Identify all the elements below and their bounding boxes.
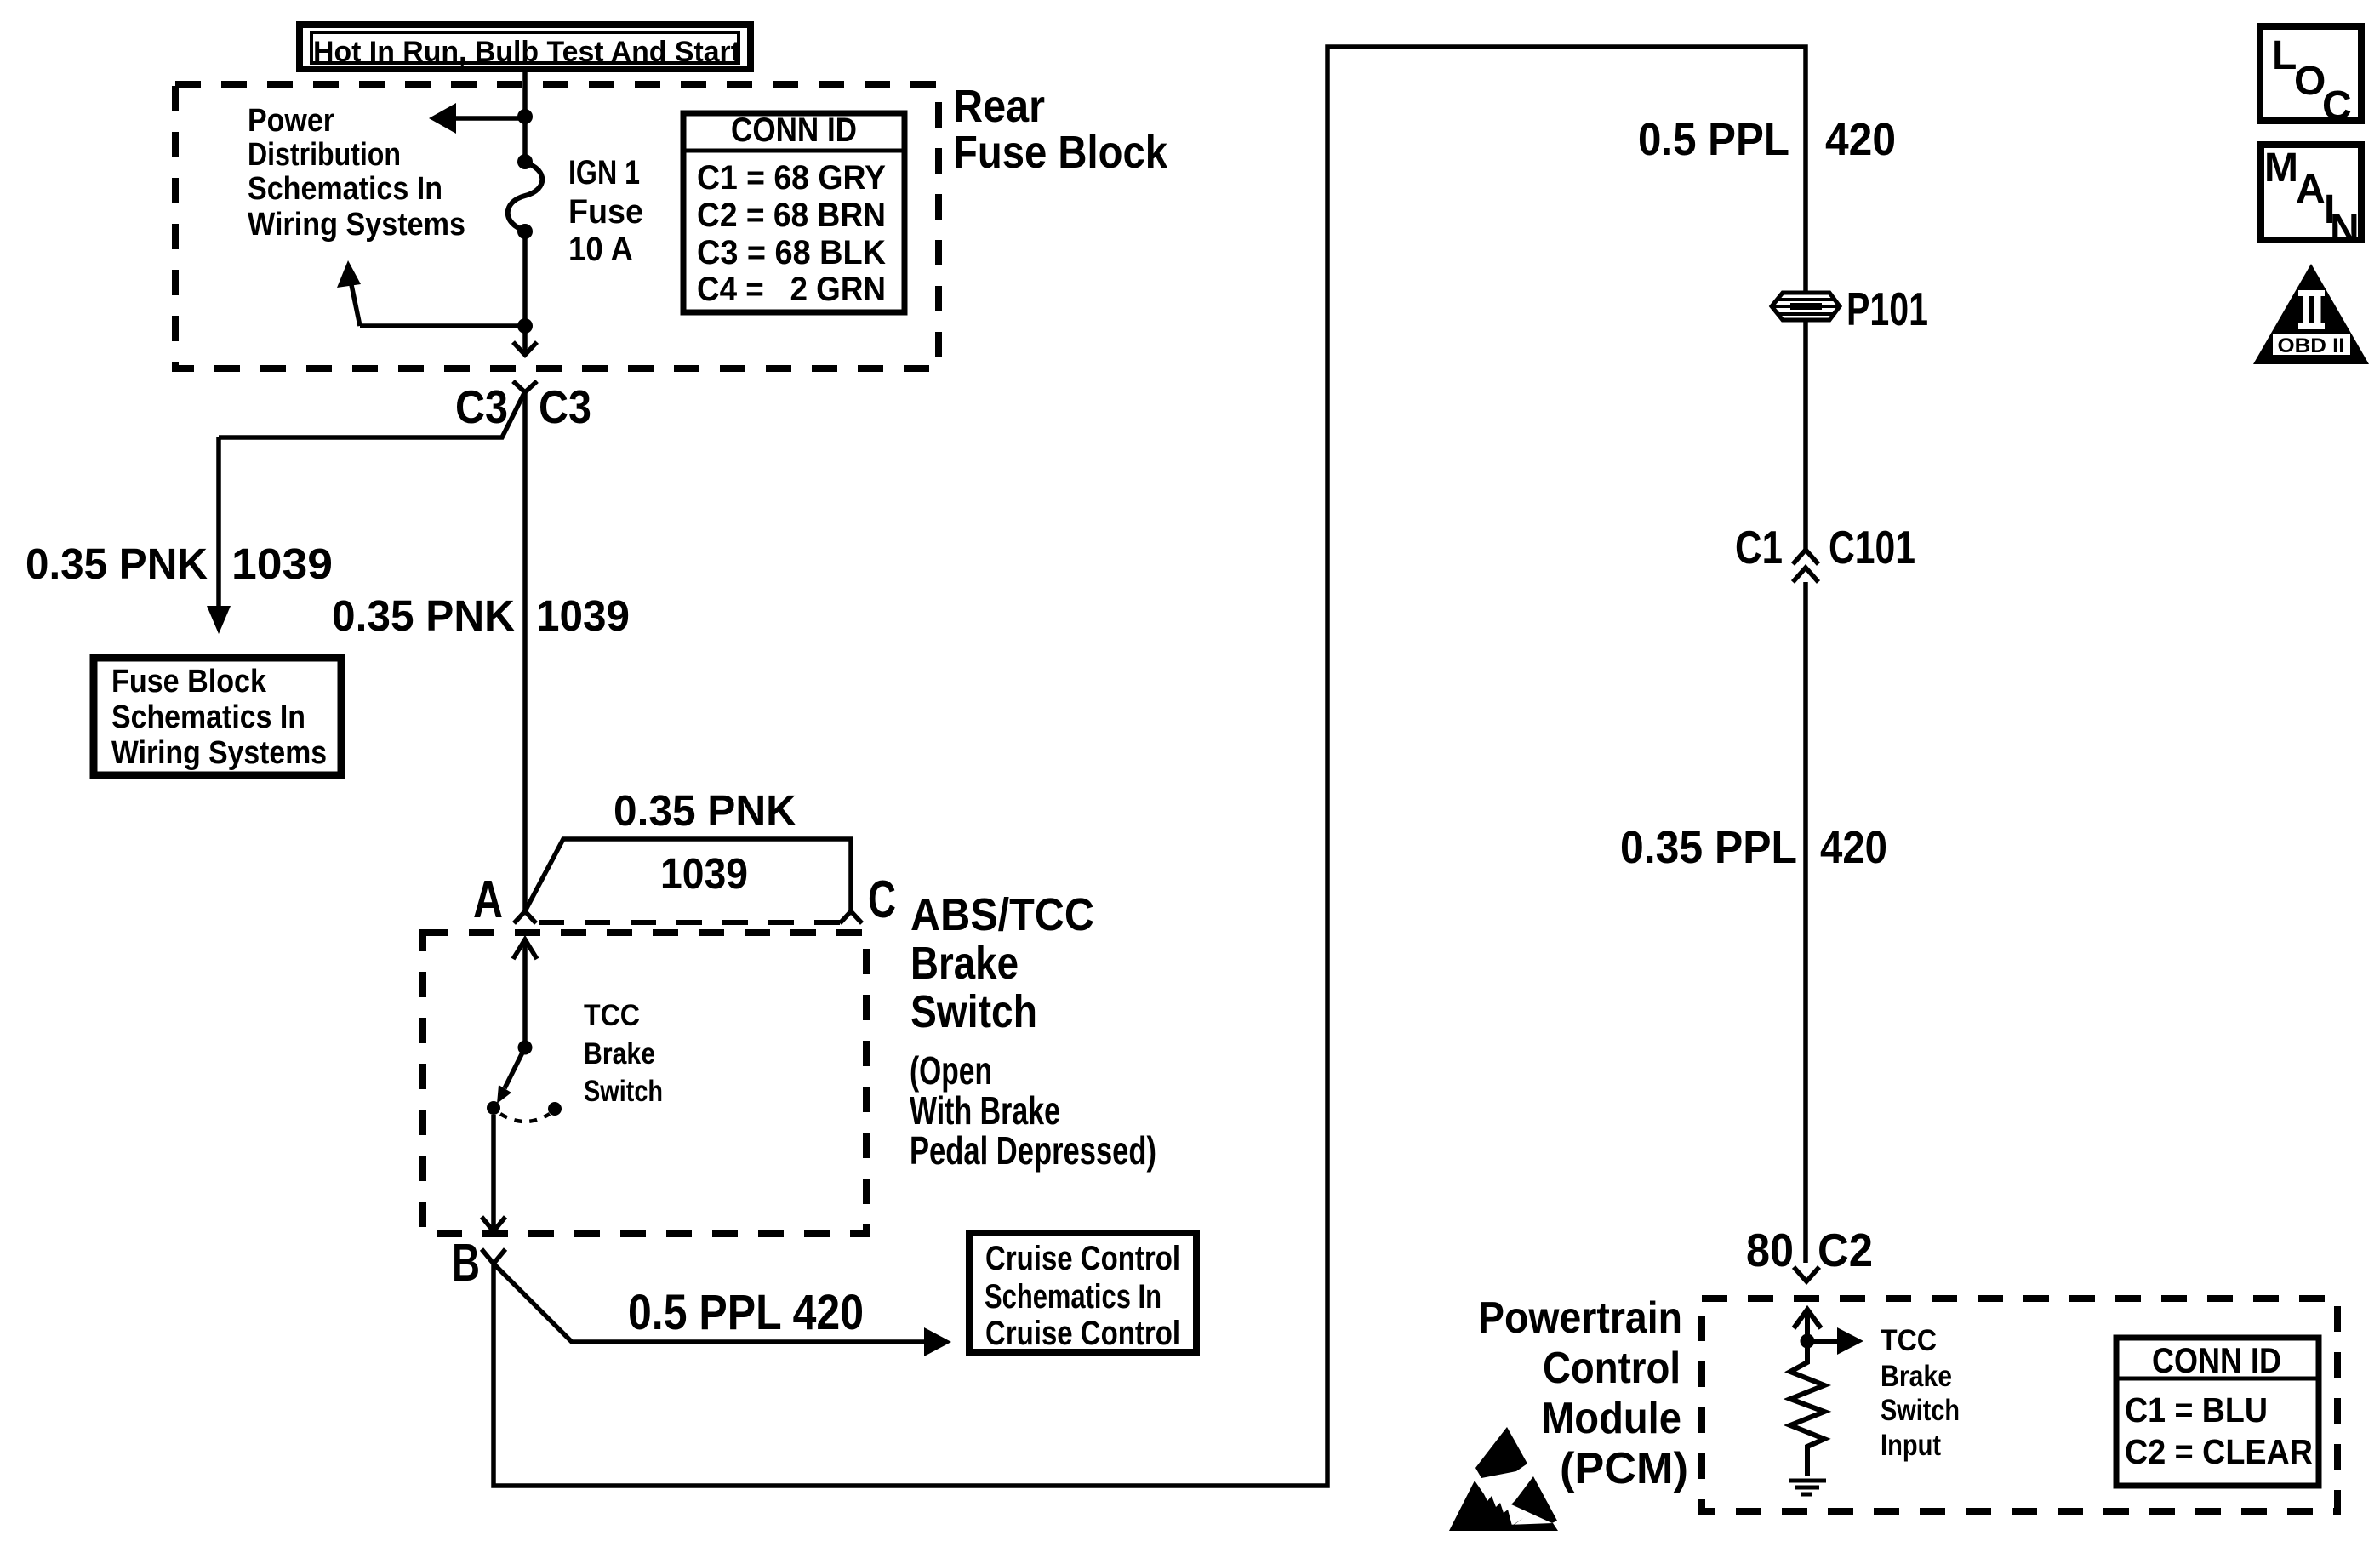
svg-text:Rear: Rear (953, 81, 1045, 132)
svg-text:Cruise Control: Cruise Control (985, 1315, 1180, 1352)
svg-text:P101: P101 (1846, 283, 1928, 335)
svg-text:Fuse: Fuse (568, 193, 643, 231)
fuse IGN 1 (S-curve element) (508, 154, 543, 239)
wire exit arrow at bottom of fuse block (513, 326, 537, 355)
label 0.35 PNK 1039 (main wire) (332, 591, 630, 640)
svg-text:420: 420 (1820, 822, 1887, 873)
wire branch from C3 to left arrow (207, 393, 524, 634)
svg-text:Hot In Run, Bulb Test And Star: Hot In Run, Bulb Test And Start (313, 36, 740, 68)
PCM input chevron arrow (1794, 1310, 1821, 1341)
wire dot to fuse (522, 117, 528, 162)
svg-text:IGN 1: IGN 1 (568, 154, 640, 191)
label 0.35 PNK 1039 (left branch) (26, 539, 333, 588)
wire entering switch with up arrow (513, 939, 537, 1042)
connector C3/C3 (fuse block to harness) (513, 381, 537, 392)
svg-text:Pedal Depressed): Pedal Depressed) (910, 1128, 1156, 1173)
wire bypass loop A to C (526, 839, 851, 910)
svg-text:With Brake: With Brake (910, 1088, 1060, 1133)
wire arrow to power distribution (left) (429, 103, 525, 134)
svg-text:C3: C3 (539, 380, 591, 433)
svg-text:(PCM): (PCM) (1560, 1444, 1688, 1493)
svg-text:C101: C101 (1829, 521, 1915, 574)
svg-text:C1: C1 (1735, 521, 1783, 574)
wire from Hot box into fuse block (522, 70, 528, 117)
svg-text:CONN ID: CONN ID (2152, 1340, 2281, 1380)
svg-text:C4 = 2 GRN: C4 = 2 GRN (697, 271, 886, 308)
wire arrow to TCC input (1807, 1327, 1863, 1355)
svg-text:Distribution: Distribution (248, 137, 401, 173)
svg-text:C2 = CLEAR: C2 = CLEAR (2125, 1432, 2313, 1471)
svg-text:A: A (473, 870, 503, 929)
svg-text:TCC: TCC (1881, 1324, 1937, 1357)
svg-text:Switch: Switch (584, 1075, 663, 1108)
svg-text:Module: Module (1541, 1394, 1681, 1443)
svg-text:Wiring Systems: Wiring Systems (248, 207, 465, 243)
connector pin B (482, 1249, 505, 1264)
wire fuse to lower junction (522, 231, 528, 326)
label TCC Brake Switch Input (1881, 1324, 1960, 1462)
connector pin A (514, 911, 536, 923)
svg-text:ABS/TCC: ABS/TCC (910, 889, 1094, 940)
label 0.35 PPL 420 (1620, 822, 1887, 873)
svg-text:0.35 PNK: 0.35 PNK (26, 539, 208, 588)
Powertrain Control Module dashed box (1702, 1299, 2337, 1511)
svg-text:B: B (452, 1234, 480, 1293)
label IGN 1 Fuse 10 A (568, 154, 643, 268)
label (Open With Brake Pedal Depressed) (910, 1048, 1156, 1173)
svg-text:Control: Control (1543, 1344, 1681, 1393)
connector P101 grommet (1772, 293, 1840, 320)
svg-text:0.5 PPL: 0.5 PPL (1638, 114, 1789, 165)
ESD warning symbol (1449, 1427, 1558, 1531)
svg-text:Schematics In: Schematics In (248, 171, 442, 207)
svg-text:0.35 PNK: 0.35 PNK (332, 591, 515, 640)
svg-text:TCC: TCC (584, 999, 640, 1032)
wire B to cruise control arrow (494, 1264, 951, 1356)
node junction dot below fuse (517, 318, 533, 334)
svg-text:(Open: (Open (910, 1048, 992, 1093)
label Rear Fuse Block (953, 81, 1168, 178)
switch TCC brake switch (blade and contacts) (487, 1041, 562, 1122)
resistor (PCM pull-up) (1790, 1348, 1824, 1476)
wire C101 to PCM (1803, 582, 1808, 1263)
svg-text:L: L (2272, 33, 2297, 78)
svg-text:C3 = 68 BLK: C3 = 68 BLK (697, 234, 886, 271)
label ABS/TCC Brake Switch (910, 889, 1094, 1037)
connector pin 80/C2 (1794, 1267, 1819, 1281)
connector C1/C101 (double chevron) (1793, 550, 1818, 582)
ground (PCM internal) (1789, 1481, 1826, 1494)
MAIN reference box (2261, 145, 2361, 252)
svg-text:OBD II: OBD II (2278, 334, 2345, 357)
label Power Distribution Schematics In Wiring Systems (248, 103, 465, 243)
svg-text:A: A (2296, 167, 2326, 212)
ABS/TCC Brake Switch dashed box (423, 933, 866, 1234)
svg-text:C: C (2322, 83, 2352, 128)
LOC reference box (2260, 26, 2361, 128)
node junction dot at fuse feed (517, 109, 533, 124)
Rear Fuse Block dashed box (175, 84, 939, 368)
connector pin C (840, 911, 862, 923)
wire branch to fuse block schematics arrow (337, 260, 525, 326)
Fuse Block Schematics box (94, 658, 341, 775)
wire P101 to C101 (1803, 320, 1808, 550)
label Powertrain Control Module (PCM) (1478, 1293, 1688, 1493)
svg-text:Power: Power (248, 103, 334, 139)
svg-text:Fuse Block: Fuse Block (111, 664, 267, 699)
svg-text:N: N (2330, 207, 2360, 252)
CONN ID table (PCM) (2116, 1338, 2319, 1486)
CONN ID table (rear fuse block) (683, 111, 905, 312)
svg-text:Brake: Brake (910, 938, 1019, 989)
svg-text:Powertrain: Powertrain (1478, 1293, 1682, 1343)
Cruise Control Schematics box (969, 1233, 1196, 1352)
svg-text:Schematics In: Schematics In (111, 699, 305, 735)
label 0.5 PPL 420 (top right) (1638, 114, 1896, 165)
dashed internal link A to C (539, 920, 840, 925)
svg-text:C2 = 68 BRN: C2 = 68 BRN (697, 197, 886, 234)
wire long loop B to PCM feed (494, 47, 1806, 1486)
svg-text:O: O (2294, 59, 2326, 104)
svg-text:Brake: Brake (584, 1037, 655, 1070)
svg-text:1039: 1039 (231, 539, 333, 588)
svg-text:1039: 1039 (660, 849, 748, 898)
svg-text:Switch: Switch (1881, 1394, 1960, 1427)
svg-text:80: 80 (1746, 1224, 1794, 1276)
svg-text:Wiring Systems: Wiring Systems (111, 735, 327, 771)
label TCC Brake Switch (584, 999, 663, 1108)
svg-text:Brake: Brake (1881, 1360, 1952, 1393)
wire main vertical C3 to A (522, 392, 528, 911)
svg-text:1039: 1039 (536, 591, 630, 640)
svg-text:CONN ID: CONN ID (731, 111, 857, 149)
svg-text:0.35 PPL: 0.35 PPL (1620, 822, 1797, 873)
svg-text:Input: Input (1881, 1429, 1941, 1462)
svg-text:C3: C3 (455, 380, 508, 433)
svg-text:C: C (868, 870, 896, 929)
svg-text:10 A: 10 A (568, 231, 633, 268)
svg-text:C1 = 68 GRY: C1 = 68 GRY (697, 159, 886, 197)
svg-text:C1 = BLU: C1 = BLU (2125, 1390, 2268, 1430)
svg-text:0.5 PPL 420: 0.5 PPL 420 (628, 1285, 864, 1340)
node junction dot in PCM (1801, 1334, 1815, 1349)
svg-text:Switch: Switch (910, 986, 1037, 1037)
svg-text:M: M (2264, 146, 2298, 191)
svg-text:C2: C2 (1818, 1224, 1873, 1276)
OBD II symbol (2253, 264, 2369, 364)
svg-text:0.35 PNK: 0.35 PNK (614, 786, 796, 835)
svg-text:Schematics In: Schematics In (985, 1278, 1161, 1316)
wire switch output with down arrow (482, 1115, 505, 1231)
svg-text:420: 420 (1825, 114, 1896, 165)
svg-text:Fuse Block: Fuse Block (953, 127, 1168, 178)
svg-text:Cruise Control: Cruise Control (985, 1240, 1180, 1277)
power feed box "Hot In Run, Bulb Test And Start" (300, 25, 751, 69)
